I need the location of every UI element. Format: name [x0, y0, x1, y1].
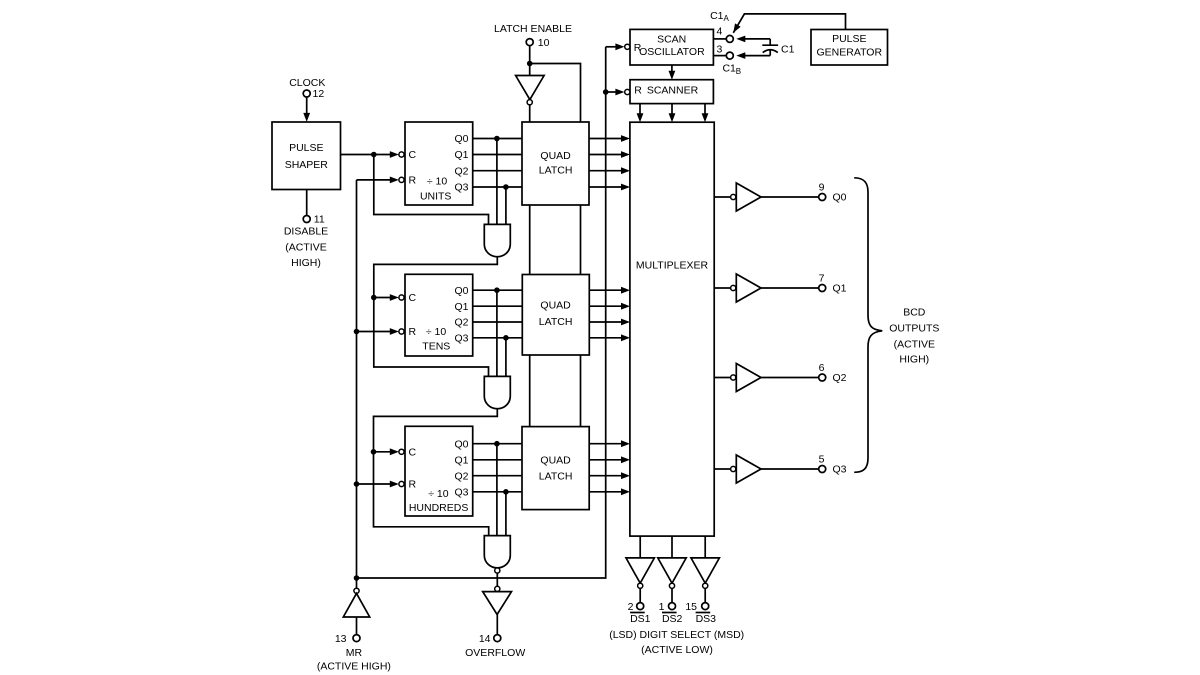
- svg-text:R: R: [409, 175, 417, 187]
- svg-text:SHAPER: SHAPER: [285, 159, 329, 171]
- counter U7 divide-by-10 TENS: [405, 274, 473, 356]
- svg-text:Q2: Q2: [454, 317, 468, 329]
- svg-text:15: 15: [685, 601, 697, 613]
- svg-text:LATCH: LATCH: [539, 470, 573, 482]
- svg-text:Q2: Q2: [454, 470, 468, 482]
- svg-text:R: R: [409, 326, 417, 338]
- pin 7 terminal Q1: [819, 272, 847, 294]
- svg-text:10: 10: [538, 37, 550, 49]
- svg-text:12: 12: [313, 88, 325, 100]
- svg-text:Q2: Q2: [833, 372, 847, 384]
- inverter U21 digit select 3: [691, 536, 719, 603]
- wire hundreds reset input: [354, 481, 404, 488]
- wire latch enable branch to latch top: [530, 64, 581, 123]
- wire master reset bottom rail to scanner: [354, 47, 606, 581]
- wire scanner reset input: [606, 89, 630, 96]
- svg-text:MULTIPLEXER: MULTIPLEXER: [636, 259, 709, 271]
- buffer U16 Q1 output: [714, 274, 819, 302]
- svg-text:R: R: [409, 479, 417, 491]
- node BCD OUTPUTS label: [889, 306, 939, 365]
- svg-text:Q0: Q0: [454, 438, 468, 450]
- svg-text:PULSE: PULSE: [832, 33, 866, 45]
- svg-text:Q3: Q3: [454, 333, 468, 345]
- inverter U20 digit select 2: [658, 536, 686, 603]
- svg-text:DS2: DS2: [662, 613, 683, 625]
- inverter U12 master reset: [343, 578, 369, 635]
- svg-text:LATCH: LATCH: [539, 316, 573, 328]
- wire latch2 outputs to multiplexer: [589, 287, 630, 341]
- wire clock input: [303, 97, 310, 122]
- pin 4 terminal: [713, 26, 733, 43]
- wire latch enable pass-through 2 to 3: [530, 355, 581, 427]
- capacitor C1: [736, 36, 794, 59]
- and gate G3 overflow: [484, 536, 510, 574]
- svg-text:LATCH: LATCH: [539, 164, 573, 176]
- inverter U19 digit select 1: [626, 536, 654, 603]
- quad latch U10: [522, 275, 589, 356]
- svg-text:1: 1: [659, 601, 665, 613]
- svg-text:TENS: TENS: [422, 341, 450, 353]
- wire pulse generator to pin 4: [733, 14, 845, 33]
- svg-text:3: 3: [716, 44, 722, 56]
- svg-text:OUTPUTS: OUTPUTS: [889, 322, 939, 334]
- pin 1 terminal DS2: [659, 601, 683, 625]
- svg-text:OSCILLATOR: OSCILLATOR: [639, 46, 705, 58]
- svg-text:Q0: Q0: [833, 192, 847, 204]
- wire latch1 outputs to multiplexer: [589, 135, 630, 190]
- pin 13 terminal: [335, 633, 360, 645]
- buffer U18 Q3 output: [714, 455, 819, 483]
- buffer U15 Q0 output: [714, 183, 819, 211]
- svg-text:CLOCK: CLOCK: [289, 77, 325, 89]
- node tens Q0 junction: [494, 287, 500, 293]
- svg-text:÷ 10: ÷ 10: [426, 326, 447, 338]
- buffer U17 Q2 output: [714, 364, 819, 392]
- counter U8 divide-by-10 HUNDREDS: [405, 426, 473, 516]
- svg-text:DS3: DS3: [696, 613, 717, 625]
- wire latch enable pass-through 1 to 2: [530, 205, 581, 275]
- wire clock branch to AND1: [374, 155, 489, 225]
- svg-text:÷ 10: ÷ 10: [428, 488, 449, 500]
- brace BCD outputs: [854, 178, 882, 473]
- svg-text:OVERFLOW: OVERFLOW: [465, 647, 525, 659]
- svg-text:A: A: [724, 14, 730, 23]
- svg-text:BCD: BCD: [903, 306, 926, 318]
- svg-text:(ACTIVE: (ACTIVE: [285, 241, 326, 253]
- node clock junction A: [371, 152, 377, 158]
- node LATCH ENABLE label: [494, 23, 572, 35]
- node hundreds Q3 junction: [503, 489, 509, 495]
- svg-text:C: C: [409, 149, 417, 161]
- wire latch3 outputs to multiplexer: [589, 440, 630, 495]
- pin 12 terminal: [303, 88, 324, 100]
- svg-text:MR: MR: [346, 647, 363, 659]
- pin 5 terminal Q3: [819, 453, 847, 475]
- svg-text:UNITS: UNITS: [420, 191, 452, 203]
- svg-text:(ACTIVE: (ACTIVE: [894, 338, 935, 350]
- svg-text:Q0: Q0: [454, 133, 468, 145]
- wire master reset vertical rail: [356, 180, 358, 578]
- svg-text:DISABLE: DISABLE: [284, 225, 328, 237]
- svg-text:Q1: Q1: [833, 283, 847, 295]
- inverter U2 latch enable: [516, 76, 545, 123]
- svg-text:9: 9: [819, 181, 825, 193]
- svg-text:Q2: Q2: [454, 165, 468, 177]
- pulse shaper U1: [272, 122, 341, 190]
- wire hundreds Q0-Q3 to latch: [473, 444, 522, 492]
- svg-text:14: 14: [479, 633, 491, 645]
- svg-text:C1: C1: [722, 63, 736, 75]
- svg-text:(LSD) DIGIT SELECT (MSD): (LSD) DIGIT SELECT (MSD): [609, 629, 744, 641]
- svg-text:C: C: [409, 447, 417, 459]
- pin 14 terminal: [479, 633, 501, 645]
- node OVERFLOW label: [465, 647, 525, 659]
- svg-text:2: 2: [628, 601, 634, 613]
- node tens Q3 junction: [503, 335, 509, 341]
- svg-text:SCAN: SCAN: [657, 33, 686, 45]
- svg-text:HIGH): HIGH): [899, 354, 929, 366]
- svg-text:Q1: Q1: [454, 149, 468, 161]
- svg-text:13: 13: [335, 633, 347, 645]
- pin 15 terminal DS3: [685, 601, 716, 625]
- node DIGIT SELECT label: [609, 629, 744, 656]
- node DISABLE label: [284, 225, 328, 269]
- svg-text:QUAD: QUAD: [540, 300, 571, 312]
- svg-text:QUAD: QUAD: [540, 150, 571, 162]
- node scanner reset junction: [603, 89, 609, 95]
- wire scan oscillator reset input: [606, 43, 630, 50]
- svg-text:R: R: [634, 85, 642, 97]
- pin 10 terminal: [526, 37, 549, 49]
- svg-text:Q3: Q3: [833, 464, 847, 476]
- node units Q3 junction: [503, 184, 509, 190]
- svg-text:11: 11: [314, 214, 325, 226]
- node CLOCK label: [289, 77, 325, 89]
- svg-text:÷ 10: ÷ 10: [427, 176, 448, 188]
- wire latch enable vertical: [529, 46, 531, 76]
- wire hundreds Q0 Q3 to AND3: [497, 444, 506, 536]
- and gate G1: [484, 224, 510, 256]
- svg-text:5: 5: [819, 453, 825, 465]
- wire tens Q0-Q3 to latch: [473, 290, 523, 338]
- svg-text:6: 6: [819, 362, 825, 374]
- wire disable: [306, 190, 308, 216]
- svg-text:C: C: [409, 292, 417, 304]
- pin 2 terminal DS1: [628, 601, 651, 625]
- node units Q0 junction: [494, 136, 500, 142]
- pin 9 terminal Q0: [819, 181, 847, 203]
- svg-text:Q1: Q1: [454, 455, 468, 467]
- pin 11 terminal: [303, 214, 325, 226]
- wire units reset input: [357, 177, 405, 184]
- svg-text:Q1: Q1: [454, 301, 468, 313]
- svg-text:QUAD: QUAD: [540, 455, 571, 467]
- node MR label: [317, 647, 391, 673]
- wire scan oscillator to scanner: [669, 65, 676, 80]
- wire pulse shaper output to units clock: [341, 151, 405, 158]
- wire units Q0-Q3 to latch: [473, 139, 522, 188]
- node hundreds Q0 junction: [494, 441, 500, 447]
- node C1A label: [710, 10, 729, 23]
- wire carry2 to hundreds clock and AND3: [371, 409, 498, 536]
- svg-text:SCANNER: SCANNER: [647, 85, 699, 97]
- svg-text:LATCH ENABLE: LATCH ENABLE: [494, 23, 572, 35]
- svg-text:Q0: Q0: [454, 285, 468, 297]
- and gate G2: [484, 376, 510, 408]
- wire scanner to multiplexer select lines: [637, 104, 709, 123]
- svg-text:HUNDREDS: HUNDREDS: [409, 502, 469, 514]
- node latch enable junction: [527, 61, 533, 67]
- node C1B label: [722, 63, 741, 76]
- pin 6 terminal Q2: [819, 362, 847, 384]
- scanner U4: [630, 80, 713, 104]
- pin 3 terminal: [713, 44, 733, 60]
- wire tens reset input: [354, 328, 404, 335]
- svg-text:B: B: [736, 67, 741, 76]
- svg-text:GENERATOR: GENERATOR: [817, 47, 883, 59]
- quad latch U9: [522, 122, 589, 205]
- svg-text:C1: C1: [710, 10, 724, 22]
- svg-text:PULSE: PULSE: [289, 142, 323, 154]
- counter U6 divide-by-10 UNITS: [405, 122, 473, 205]
- svg-text:7: 7: [819, 272, 825, 284]
- svg-text:Q3: Q3: [454, 487, 468, 499]
- svg-text:Q3: Q3: [454, 182, 468, 194]
- multiplexer U14: [630, 122, 714, 536]
- wire units Q0 Q3 to AND1: [497, 139, 506, 225]
- svg-text:(ACTIVE HIGH): (ACTIVE HIGH): [317, 661, 391, 673]
- svg-text:HIGH): HIGH): [291, 257, 321, 269]
- svg-text:C1: C1: [781, 44, 795, 56]
- quad latch U11: [522, 427, 589, 510]
- wire carry1 to tens clock and AND2: [371, 257, 497, 377]
- wire tens Q0 Q3 to AND2: [497, 290, 506, 376]
- svg-text:DS1: DS1: [630, 613, 651, 625]
- pulse generator U5: [811, 30, 888, 66]
- inverter U13 overflow: [483, 573, 512, 635]
- scan oscillator U3: [630, 29, 713, 65]
- svg-text:(ACTIVE LOW): (ACTIVE LOW): [641, 644, 713, 656]
- svg-text:4: 4: [716, 26, 722, 38]
